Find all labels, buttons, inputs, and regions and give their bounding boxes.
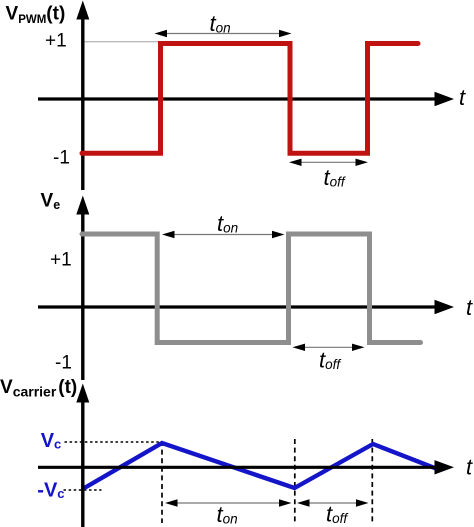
svg-text:+1: +1 — [45, 31, 67, 52]
svg-text:-1: -1 — [53, 147, 70, 168]
svg-text:+1: +1 — [50, 250, 72, 271]
svg-text:t: t — [466, 455, 473, 480]
svg-text:t: t — [459, 85, 466, 110]
svg-text:-1: -1 — [55, 352, 72, 373]
svg-text:t: t — [466, 295, 473, 320]
